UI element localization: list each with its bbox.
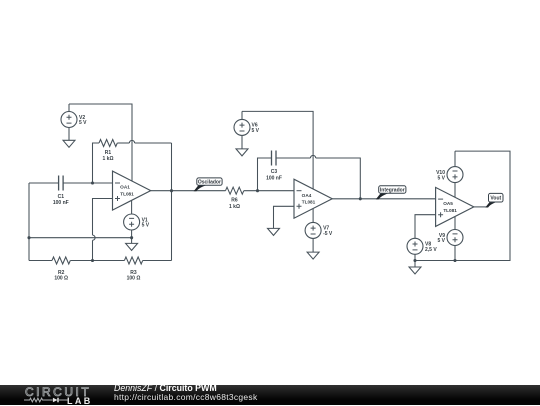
- voltage source V9: [447, 217, 463, 261]
- ground OA4 +in: [268, 228, 280, 235]
- wire OA1 output: [151, 190, 226, 192]
- voltage source V2: [61, 104, 77, 140]
- voltage source V8: [407, 238, 423, 260]
- flag Vout: [485, 193, 503, 207]
- node V8 gnd: [413, 259, 416, 262]
- svg-text:1 kΩ: 1 kΩ: [229, 204, 240, 210]
- svg-text:2,5 V: 2,5 V: [425, 247, 437, 253]
- node R6/C3: [256, 189, 259, 192]
- node V1 gnd: [130, 236, 133, 239]
- svg-text:-5 V: -5 V: [323, 231, 333, 237]
- svg-text:1 kΩ: 1 kΩ: [103, 156, 114, 162]
- svg-text:Vout: Vout: [490, 196, 501, 202]
- svg-text:OA1: OA1: [120, 185, 130, 190]
- wire OA5 output: [474, 206, 488, 208]
- wire top from V2 to OA1 V+: [69, 104, 132, 181]
- svg-text:5 V: 5 V: [142, 223, 150, 229]
- wire top from V6 to OA4 V+: [242, 111, 313, 189]
- svg-text:TL081: TL081: [443, 208, 457, 213]
- svg-text:C3: C3: [271, 169, 278, 175]
- wire left vertical: [28, 183, 30, 261]
- resistor R2: [29, 257, 93, 264]
- CircuitLab logo: [25, 385, 91, 399]
- svg-text:100 Ω: 100 Ω: [127, 276, 141, 282]
- wire top loop V10: [415, 151, 510, 260]
- node R2/R3: [91, 259, 94, 262]
- footer bar: [0, 385, 540, 405]
- svg-text:100 Ω: 100 Ω: [54, 276, 68, 282]
- ground below V2: [63, 140, 75, 147]
- wire OA1 +in to R2/R3 node (hop over ground row): [93, 199, 113, 261]
- svg-text:OA5: OA5: [443, 201, 453, 206]
- svg-text:TL081: TL081: [302, 200, 316, 205]
- svg-text:5 V: 5 V: [252, 128, 260, 134]
- node V9 bottom: [453, 259, 456, 262]
- svg-text:5 V: 5 V: [437, 175, 445, 181]
- svg-text:TL081: TL081: [120, 192, 134, 197]
- svg-text:100 nF: 100 nF: [266, 176, 282, 182]
- svg-text:Integrador: Integrador: [380, 187, 405, 193]
- resistor R3: [93, 257, 172, 264]
- node OA1 out: [170, 189, 173, 192]
- capacitor C1: [29, 176, 113, 191]
- svg-text:5 V: 5 V: [437, 238, 445, 244]
- ground below V6: [236, 149, 248, 156]
- voltage source V10: [447, 151, 463, 197]
- node dots: [27, 181, 456, 262]
- voltage source V6: [234, 111, 250, 148]
- ground below V1: [126, 238, 138, 251]
- svg-text:Oscilador: Oscilador: [198, 180, 221, 186]
- svg-text:R1: R1: [105, 150, 112, 156]
- node gnd row left: [27, 236, 30, 239]
- flag Oscilador: [194, 178, 223, 191]
- wire ground row left: [29, 237, 132, 239]
- capacitor C3 feedback: [258, 151, 361, 199]
- resistor R6: [226, 187, 295, 194]
- svg-text:C1: C1: [58, 194, 65, 200]
- flag Integrador: [376, 186, 406, 200]
- voltage source V1: [124, 200, 140, 237]
- node OA1 -in: [91, 181, 94, 184]
- wire OA4 +in to ground: [274, 206, 295, 228]
- svg-text:OA4: OA4: [302, 193, 312, 198]
- svg-text:100 nF: 100 nF: [53, 200, 69, 206]
- op-amp OA1: [113, 171, 151, 210]
- voltage source V7: [305, 208, 321, 252]
- resistor R1: [93, 140, 172, 184]
- svg-text:5 V: 5 V: [79, 120, 87, 126]
- wire OA4 output to OA5: [332, 198, 435, 200]
- ground below V7: [307, 252, 319, 259]
- node OA4 out: [359, 197, 362, 200]
- op-amp OA4: [294, 179, 332, 218]
- svg-text:R6: R6: [231, 198, 238, 204]
- wire feedback vertical x171.5: [171, 143, 173, 261]
- ground below V8: [409, 261, 421, 275]
- op-amp OA5: [436, 187, 474, 226]
- wire OA5 +in to V8: [415, 215, 436, 239]
